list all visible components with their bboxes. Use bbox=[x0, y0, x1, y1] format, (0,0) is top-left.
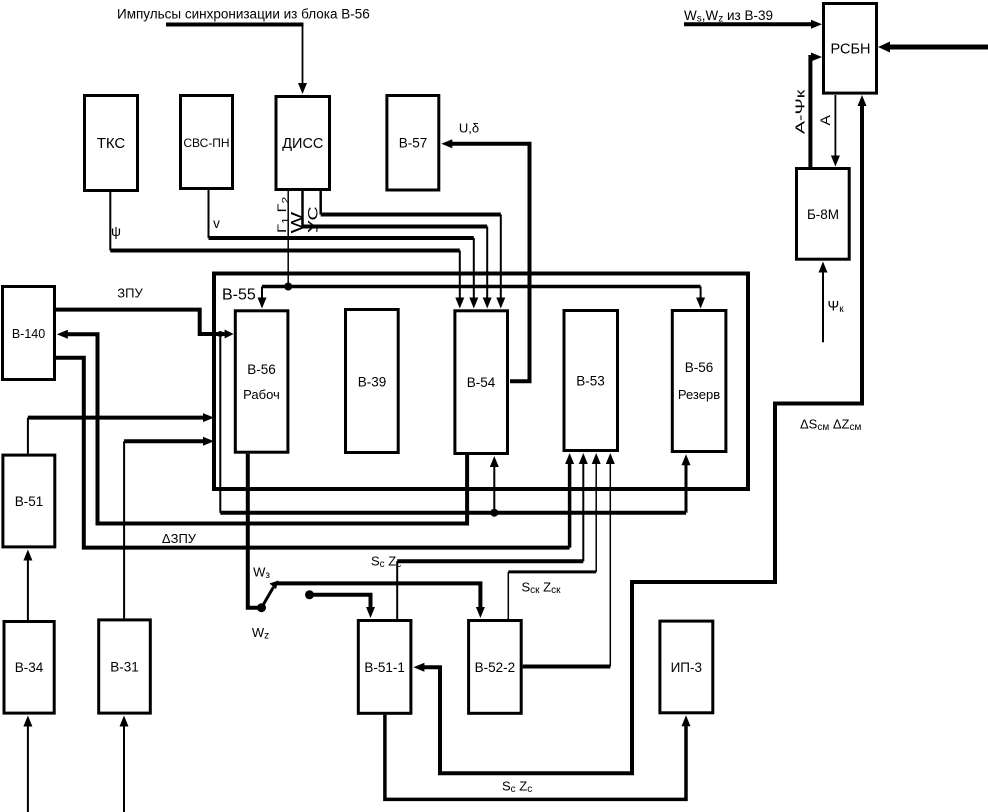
svg-text:В-31: В-31 bbox=[110, 660, 139, 675]
svg-text:ИП-3: ИП-3 bbox=[671, 660, 702, 675]
svg-text:ДИСС: ДИСС bbox=[282, 136, 323, 152]
svg-text:РСБН: РСБН bbox=[831, 42, 871, 58]
svg-text:А-Ψк: А-Ψк bbox=[793, 89, 808, 134]
svg-text:УС: УС bbox=[305, 206, 321, 233]
svg-text:В-140: В-140 bbox=[12, 327, 45, 341]
svg-text:Рабоч: Рабоч bbox=[243, 387, 280, 402]
svg-text:Резерв: Резерв bbox=[678, 387, 720, 402]
svg-text:v: v bbox=[213, 216, 220, 231]
svg-text:СВС-ПН: СВС-ПН bbox=[183, 136, 229, 150]
svg-text:ψ: ψ bbox=[111, 223, 121, 239]
svg-text:В-56: В-56 bbox=[247, 362, 276, 377]
svg-text:В-51-1: В-51-1 bbox=[364, 660, 405, 675]
svg-text:В-54: В-54 bbox=[467, 375, 496, 390]
svg-text:В-51: В-51 bbox=[15, 494, 44, 509]
svg-text:В-53: В-53 bbox=[576, 374, 605, 389]
svg-text:Б-8М: Б-8М bbox=[807, 207, 839, 222]
svg-text:В-39: В-39 bbox=[358, 375, 387, 390]
svg-text:В-55: В-55 bbox=[222, 287, 256, 304]
svg-text:ЗПУ: ЗПУ bbox=[117, 286, 143, 301]
svg-text:U,δ: U,δ bbox=[459, 121, 479, 136]
svg-text:В-34: В-34 bbox=[15, 660, 44, 675]
svg-text:А: А bbox=[819, 115, 834, 126]
svg-text:ΔЗПУ: ΔЗПУ bbox=[162, 531, 197, 546]
svg-text:В-52-2: В-52-2 bbox=[475, 660, 516, 675]
svg-text:Импульсы синхронизации из блок: Импульсы синхронизации из блока В-56 bbox=[117, 7, 370, 22]
svg-text:W: W bbox=[288, 212, 307, 234]
svg-text:ТКС: ТКС bbox=[97, 135, 126, 152]
svg-text:В-57: В-57 bbox=[399, 136, 428, 151]
svg-text:В-56: В-56 bbox=[685, 360, 714, 375]
